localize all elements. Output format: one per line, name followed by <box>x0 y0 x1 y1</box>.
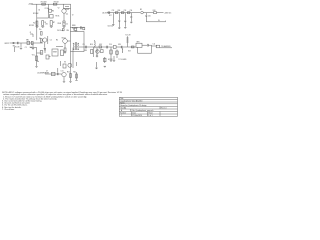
svg-text:BR1: BR1 <box>137 41 140 43</box>
svg-text:C4: C4 <box>66 24 68 26</box>
svg-text:C2: C2 <box>50 39 52 41</box>
svg-text:J1: J1 <box>30 32 32 34</box>
svg-text:R11: R11 <box>73 72 76 74</box>
svg-text:AC IN: AC IN <box>103 11 108 14</box>
svg-text:R1 1M: R1 1M <box>15 47 20 49</box>
svg-text:V2a: V2a <box>66 14 69 16</box>
svg-text:C13: C13 <box>124 10 127 12</box>
svg-text:R9 22K: R9 22K <box>54 2 59 4</box>
svg-text:R10: R10 <box>67 72 70 74</box>
svg-text:25u: 25u <box>39 29 42 31</box>
svg-text:R2 100K: R2 100K <box>33 13 38 15</box>
svg-text:C1: C1 <box>25 47 27 49</box>
svg-text:R3: R3 <box>30 47 32 49</box>
svg-text:R15: R15 <box>118 44 121 46</box>
svg-text:SK1: SK1 <box>13 46 16 48</box>
svg-text:C10: C10 <box>109 44 112 46</box>
svg-text:Rev 1.0: Rev 1.0 <box>161 108 167 110</box>
svg-text:R10: R10 <box>67 30 70 32</box>
svg-text:1 of 1: 1 of 1 <box>148 115 152 117</box>
svg-text:C11: C11 <box>153 44 156 46</box>
svg-text:TONE: TONE <box>53 51 57 53</box>
svg-text:6V3: 6V3 <box>128 51 131 53</box>
svg-text:LS1: LS1 <box>61 71 64 73</box>
svg-text:7. Check bias.: 7. Check bias. <box>2 109 15 111</box>
svg-text:T2: T2 <box>72 14 74 16</box>
svg-text:ECC82: ECC82 <box>108 59 113 61</box>
svg-text:R13: R13 <box>85 50 88 52</box>
svg-text:V1: V1 <box>39 38 41 40</box>
svg-text:R7: R7 <box>53 22 55 24</box>
svg-text:17-Feb-2010: 17-Feb-2010 <box>132 115 142 117</box>
svg-text:VR1: VR1 <box>26 39 29 41</box>
svg-text:6SN7: 6SN7 <box>65 9 69 11</box>
svg-text:1K5: 1K5 <box>45 23 48 25</box>
svg-text:ECC83: ECC83 <box>29 25 34 27</box>
svg-text:V1b: V1b <box>62 38 65 40</box>
svg-text:R17: R17 <box>109 15 112 17</box>
svg-text:R12 4K7: R12 4K7 <box>72 27 78 29</box>
svg-text:6.3V: 6.3V <box>99 44 102 46</box>
svg-text:M1: M1 <box>140 9 142 11</box>
svg-text:R4: R4 <box>56 39 58 41</box>
svg-text:C3 10n: C3 10n <box>45 8 50 10</box>
svg-text:V2: V2 <box>58 8 60 10</box>
svg-text:C7: C7 <box>46 71 48 73</box>
svg-text:T1 6.3V: T1 6.3V <box>125 35 130 37</box>
svg-text:+345V DC: +345V DC <box>164 12 172 14</box>
svg-text:T2: T2 <box>73 29 75 31</box>
svg-text:VOL: VOL <box>32 55 35 57</box>
svg-text:Notes: Notes <box>120 102 125 105</box>
svg-text:R2: R2 <box>33 22 35 24</box>
svg-text:R14: R14 <box>90 44 93 46</box>
svg-text:R18: R18 <box>153 10 156 12</box>
svg-text:C15 32uF: C15 32uF <box>108 26 114 28</box>
svg-text:C14: C14 <box>130 10 133 12</box>
svg-text:R6: R6 <box>52 10 54 12</box>
svg-text:V3: V3 <box>64 62 66 64</box>
svg-text:TO V3 GRID: TO V3 GRID <box>119 59 127 61</box>
svg-text:INPUT: INPUT <box>5 43 10 45</box>
svg-text:0V: 0V <box>158 20 160 22</box>
svg-text:C5: C5 <box>44 49 46 51</box>
svg-text:C6 25uF: C6 25uF <box>57 30 63 32</box>
svg-text:TO HEATERS: TO HEATERS <box>161 45 170 48</box>
svg-text:File: Quadrophonic_amp.sch: File: Quadrophonic_amp.sch <box>132 109 154 112</box>
svg-text:C3: C3 <box>38 10 40 12</box>
svg-text:1: 1 <box>121 115 122 117</box>
svg-text:NFB: NFB <box>72 25 76 27</box>
svg-text:R5 100K: R5 100K <box>41 2 47 4</box>
svg-text:+340V: +340V <box>28 4 34 6</box>
svg-text:Title: Title <box>120 97 123 100</box>
svg-text:C9: C9 <box>83 44 85 46</box>
svg-text:V4: V4 <box>96 55 98 57</box>
svg-text:R16: R16 <box>118 10 121 12</box>
svg-text:820R: 820R <box>58 23 61 25</box>
svg-text:C16: C16 <box>148 16 151 18</box>
svg-text:C12: C12 <box>112 10 115 12</box>
svg-text:R9 1K: R9 1K <box>56 16 60 18</box>
